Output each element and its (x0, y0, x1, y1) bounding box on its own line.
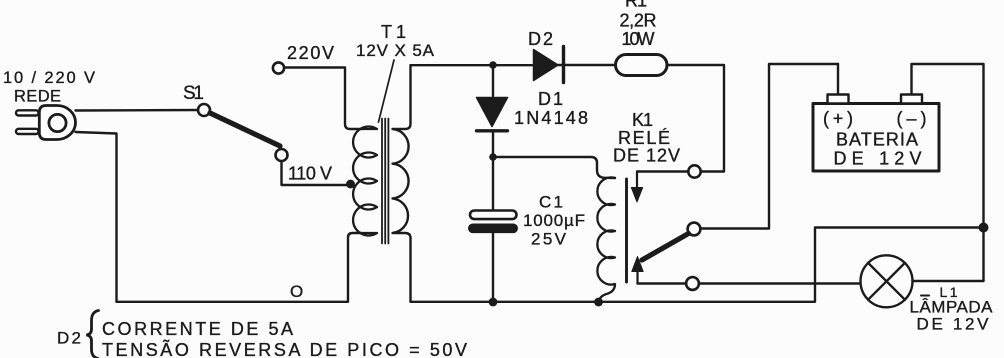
svg-text:25V: 25V (531, 230, 567, 249)
svg-text:S1: S1 (183, 83, 204, 104)
switch S1 pivot (198, 104, 210, 116)
wire plug to S1 (76, 109, 199, 112)
svg-text:D2: D2 (528, 29, 553, 49)
wire battery minus to lamp node (912, 64, 984, 281)
relay contact upper (688, 165, 700, 177)
wire 220V to primary top (285, 68, 362, 130)
node relay coil bottom (594, 298, 603, 307)
lamp L1 (861, 255, 913, 307)
svg-text:220V: 220V (287, 43, 334, 63)
label pointer T1 (379, 60, 395, 122)
resistor R1 (616, 55, 668, 76)
wire C1 to bottom rail (492, 233, 494, 302)
terminal 220V (273, 62, 284, 73)
relay arm (642, 234, 689, 261)
svg-text:10W: 10W (622, 29, 655, 49)
wire bottom rail primary (117, 233, 362, 302)
note brace (86, 311, 98, 358)
diode D2 (534, 47, 564, 83)
relay K1 coil (597, 177, 615, 302)
relay contact middle (688, 223, 701, 236)
svg-text:DE 12V: DE 12V (613, 146, 680, 166)
svg-text:D1: D1 (538, 89, 563, 109)
wire junction down to C1 (492, 157, 494, 210)
wire lamp to battery minus net (913, 280, 984, 282)
svg-text:CORRENTE DE 5A: CORRENTE DE 5A (102, 319, 293, 339)
diode D1 (477, 65, 508, 155)
svg-text:R1: R1 (625, 0, 647, 11)
plug P1 (mains plug) (16, 106, 75, 140)
svg-text:DE 12V: DE 12V (917, 315, 990, 334)
transformer T1 core (382, 119, 388, 244)
svg-text:O: O (290, 282, 303, 301)
battery terminal plus (828, 95, 849, 104)
node D1 cathode junction (489, 153, 497, 161)
node 110V tap (346, 180, 355, 189)
svg-text:1N4148: 1N4148 (514, 108, 588, 128)
wire D2 to R1 (565, 64, 615, 66)
wire middle contact to battery plus (701, 64, 839, 229)
svg-text:(–): (–) (897, 109, 927, 129)
node lamp net (979, 223, 989, 233)
label pointer L1 (921, 295, 929, 297)
svg-text:K1: K1 (632, 110, 653, 130)
svg-text:BATERIA: BATERIA (836, 130, 918, 150)
svg-text:(+): (+) (823, 109, 853, 129)
capacitor C1 plates (470, 211, 517, 220)
svg-text:10 / 220 V: 10 / 220 V (3, 69, 95, 87)
switch S1 contact (276, 149, 288, 161)
wire upper contact (637, 170, 688, 172)
svg-text:110 V: 110 V (288, 164, 332, 184)
wire lower contact to lamp (638, 282, 687, 284)
battery B1 body (813, 104, 939, 172)
wire junction to relay coil (493, 157, 615, 178)
relay contact lower (686, 277, 699, 290)
wire S1 to 110V tap (282, 162, 350, 186)
relay armature arrow up (636, 270, 638, 284)
wire secondary top rail (411, 64, 533, 66)
svg-text:C1: C1 (539, 193, 563, 212)
node C1 bottom (489, 298, 498, 307)
transformer T1 primary winding (353, 127, 377, 236)
svg-text:2,2R: 2,2R (620, 11, 657, 31)
svg-text:D2: D2 (57, 329, 81, 348)
svg-text:1000µF: 1000µF (523, 211, 585, 230)
switch S1 arm (210, 113, 280, 146)
wire R1 to upper contact (667, 65, 724, 172)
relay K1 core (625, 179, 628, 282)
wire bottom rail secondary (411, 228, 984, 302)
relay armature arrow down (636, 173, 638, 190)
svg-text:12V X 5A: 12V X 5A (356, 41, 435, 60)
transformer T1 secondary winding (393, 65, 411, 302)
node top junction (489, 61, 497, 69)
svg-text:T 1: T 1 (381, 22, 406, 42)
wire plug neutral down-left (76, 132, 117, 302)
svg-text:REDE: REDE (14, 88, 61, 106)
battery terminal minus (901, 95, 922, 104)
svg-text:TENSÃO REVERSA DE PICO = 50: TENSÃO REVERSA DE PICO = 50V (102, 339, 467, 358)
